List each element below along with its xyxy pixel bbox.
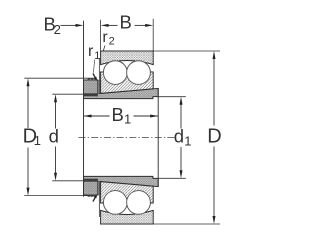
upper bearing assembly xyxy=(84,51,159,99)
nut left face / B2 extension line xyxy=(83,21,85,197)
svg-text:2: 2 xyxy=(109,36,115,48)
lower bearing assembly (mirrored) xyxy=(84,176,159,224)
svg-text:r: r xyxy=(102,29,108,46)
bearing bottom face line xyxy=(101,223,154,225)
dimension d1 xyxy=(158,97,191,179)
dimension D1 xyxy=(23,78,97,195)
svg-text:1: 1 xyxy=(34,133,41,148)
svg-text:1: 1 xyxy=(124,112,131,127)
dimension B1 xyxy=(84,104,159,127)
svg-text:2: 2 xyxy=(54,22,61,37)
upper inner ring xyxy=(101,72,154,93)
label r1 with leader arrow xyxy=(88,43,100,73)
centerline xyxy=(79,137,177,139)
lower inner ring xyxy=(101,182,154,203)
svg-text:D: D xyxy=(207,126,221,148)
svg-text:r: r xyxy=(88,43,94,60)
label r2 with leader xyxy=(102,29,114,51)
svg-text:B: B xyxy=(112,104,124,125)
svg-text:B: B xyxy=(120,12,132,33)
bearing top face line extension to D xyxy=(101,50,154,52)
dimension D xyxy=(153,51,222,224)
svg-text:d: d xyxy=(49,125,59,146)
dimension d xyxy=(49,94,84,181)
svg-text:d: d xyxy=(174,126,184,147)
upper balls redraw xyxy=(103,61,127,85)
svg-text:1: 1 xyxy=(184,133,191,148)
svg-text:1: 1 xyxy=(94,50,100,62)
lower balls redraw xyxy=(103,191,127,215)
dimension B2 xyxy=(44,14,84,37)
sleeve right face line xyxy=(157,88,159,186)
dimension B xyxy=(101,12,154,51)
